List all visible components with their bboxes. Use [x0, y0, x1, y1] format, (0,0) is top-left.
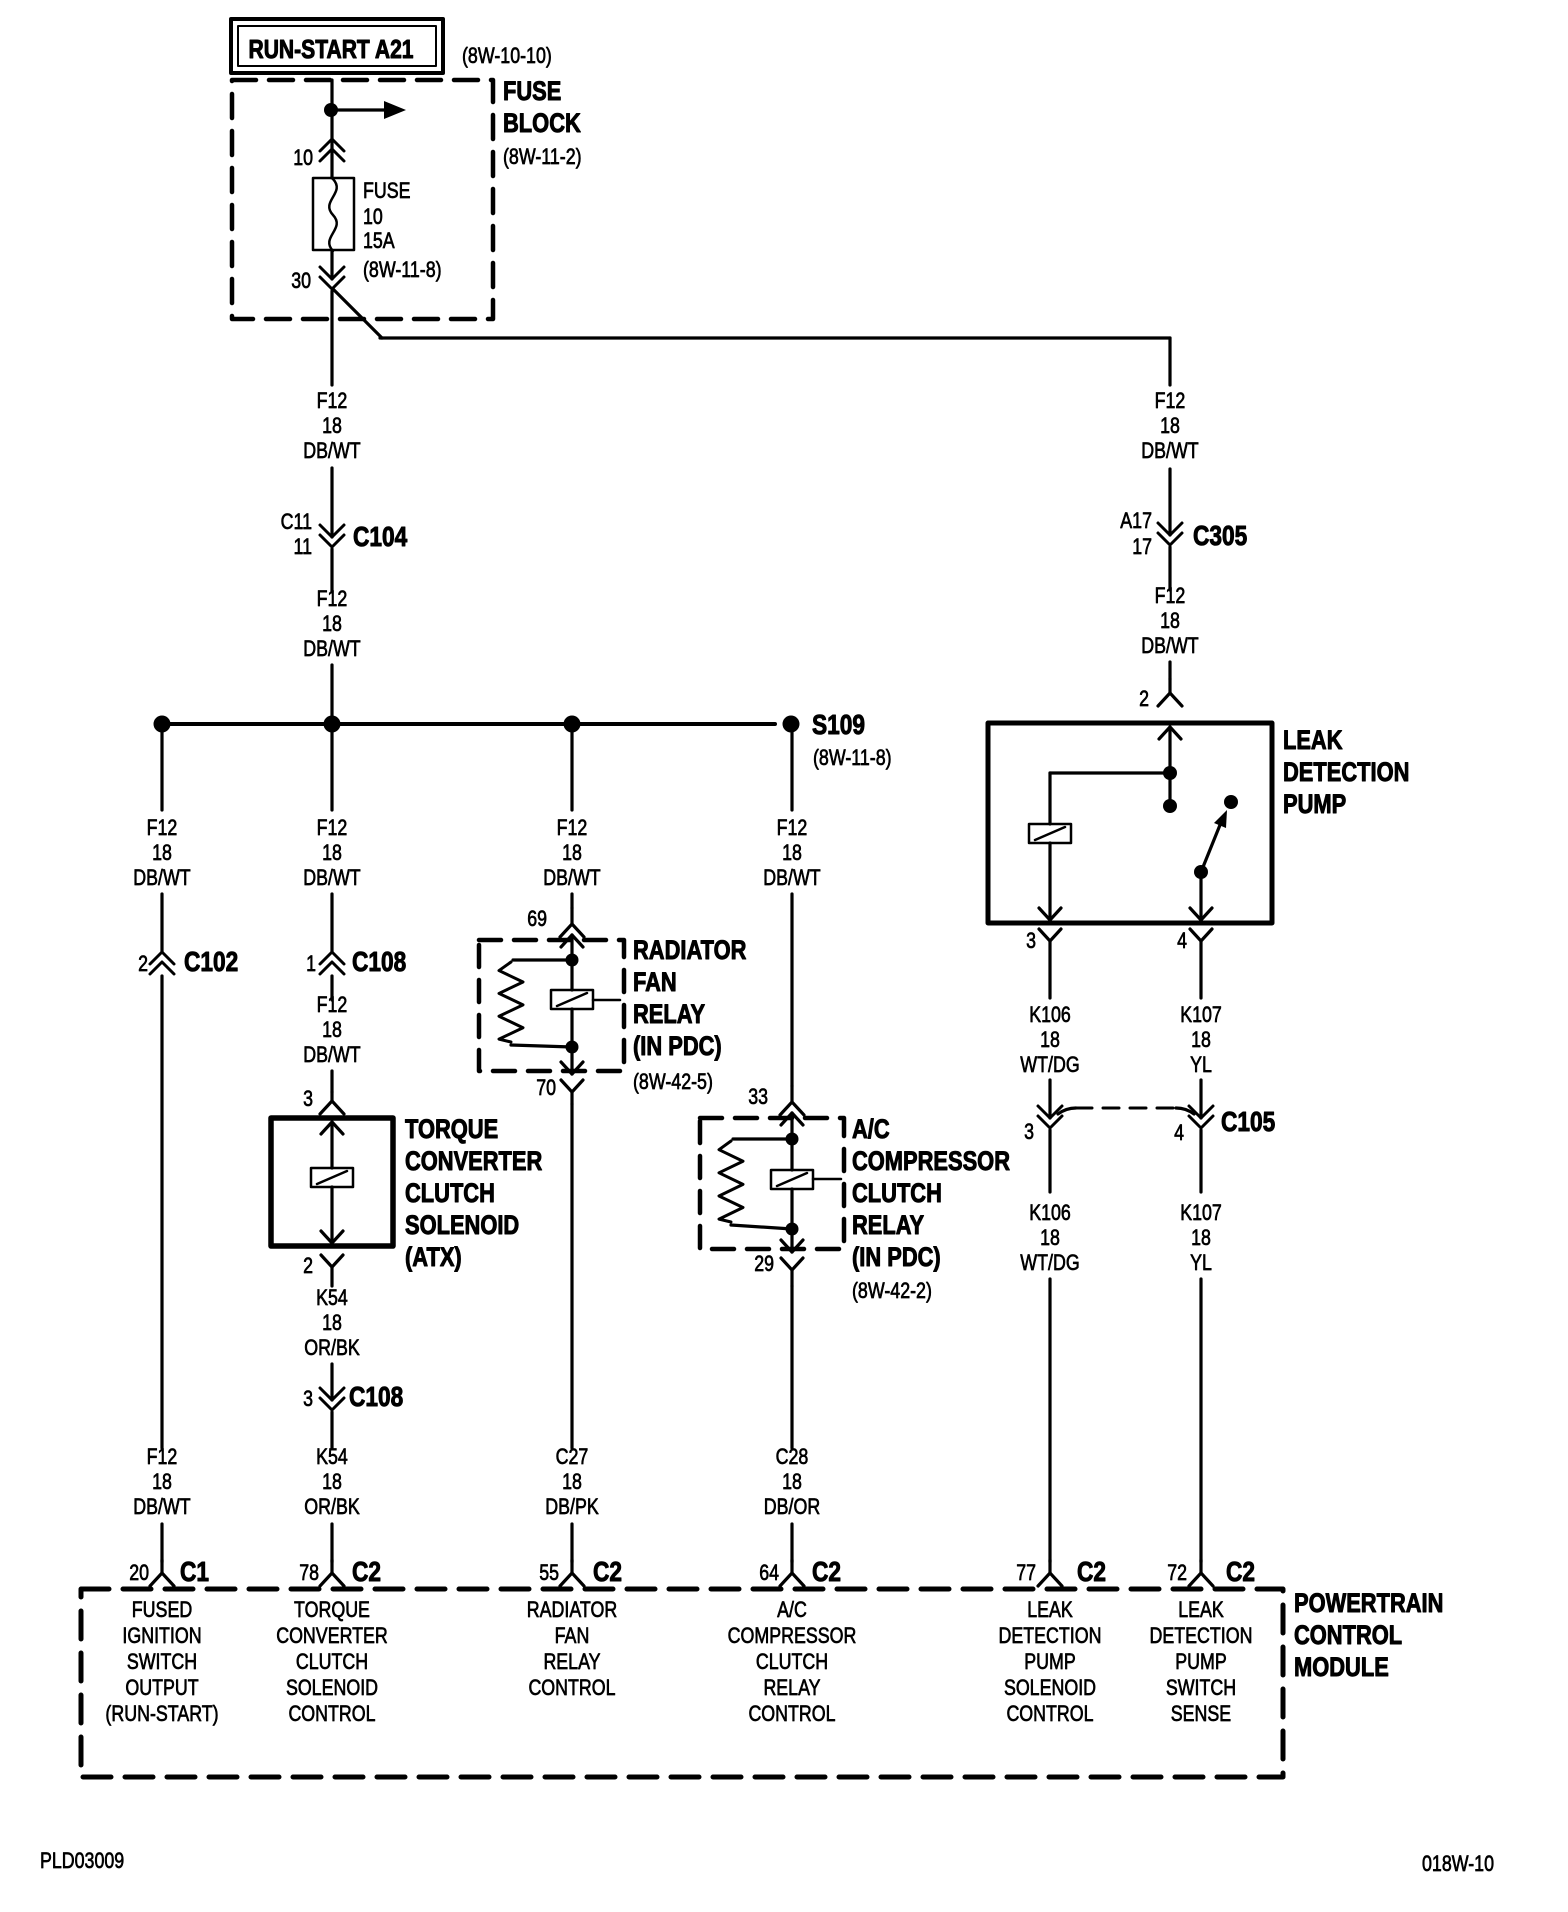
- svg-text:18: 18: [1040, 1225, 1060, 1250]
- svg-text:OR/BK: OR/BK: [304, 1494, 360, 1519]
- svg-text:DETECTION: DETECTION: [1150, 1623, 1253, 1648]
- svg-text:FAN: FAN: [633, 967, 677, 997]
- svg-text:(IN PDC): (IN PDC): [852, 1242, 941, 1272]
- svg-text:C2: C2: [1077, 1556, 1106, 1587]
- svg-text:F12: F12: [777, 815, 808, 840]
- svg-text:C1: C1: [180, 1556, 209, 1587]
- svg-text:F12: F12: [317, 992, 348, 1017]
- svg-text:70: 70: [536, 1075, 556, 1100]
- svg-text:C108: C108: [352, 946, 406, 977]
- svg-text:A17: A17: [1120, 508, 1152, 533]
- svg-text:RELAY: RELAY: [543, 1649, 600, 1674]
- svg-text:78: 78: [299, 1560, 319, 1585]
- svg-text:11: 11: [294, 534, 313, 559]
- svg-text:K107: K107: [1180, 1200, 1222, 1225]
- svg-text:64: 64: [759, 1560, 779, 1585]
- svg-text:DB/WT: DB/WT: [763, 865, 820, 890]
- svg-text:K54: K54: [316, 1285, 348, 1310]
- svg-text:LEAK: LEAK: [1027, 1597, 1073, 1622]
- svg-text:CONVERTER: CONVERTER: [276, 1623, 388, 1648]
- svg-text:DB/WT: DB/WT: [1141, 438, 1198, 463]
- svg-text:CONTROL: CONTROL: [1006, 1701, 1093, 1726]
- svg-text:PUMP: PUMP: [1175, 1649, 1227, 1674]
- svg-text:CONTROL: CONTROL: [1294, 1620, 1402, 1650]
- svg-text:MODULE: MODULE: [1294, 1652, 1389, 1682]
- svg-text:CONTROL: CONTROL: [748, 1701, 835, 1726]
- svg-text:18: 18: [322, 1017, 342, 1042]
- svg-text:PUMP: PUMP: [1024, 1649, 1076, 1674]
- svg-text:2: 2: [138, 951, 148, 976]
- svg-text:RELAY: RELAY: [633, 999, 705, 1029]
- svg-text:DETECTION: DETECTION: [1283, 757, 1409, 787]
- svg-text:C104: C104: [353, 521, 408, 552]
- svg-text:SENSE: SENSE: [1171, 1701, 1231, 1726]
- svg-text:(8W-11-2): (8W-11-2): [503, 144, 582, 169]
- svg-text:K106: K106: [1029, 1002, 1071, 1027]
- svg-text:77: 77: [1016, 1560, 1036, 1585]
- svg-text:F12: F12: [317, 815, 348, 840]
- svg-text:F12: F12: [1155, 583, 1186, 608]
- svg-text:COMPRESSOR: COMPRESSOR: [728, 1623, 857, 1648]
- svg-text:FUSED: FUSED: [132, 1597, 192, 1622]
- svg-text:(IN PDC): (IN PDC): [633, 1031, 722, 1061]
- svg-text:WT/DG: WT/DG: [1020, 1052, 1079, 1077]
- svg-text:1: 1: [306, 951, 316, 976]
- svg-text:PLD03009: PLD03009: [40, 1848, 124, 1873]
- svg-text:DB/WT: DB/WT: [303, 1042, 360, 1067]
- svg-text:DB/WT: DB/WT: [303, 636, 360, 661]
- svg-text:3: 3: [1024, 1119, 1034, 1144]
- svg-text:(8W-11-8): (8W-11-8): [813, 745, 892, 770]
- svg-text:15A: 15A: [363, 228, 395, 253]
- svg-text:BLOCK: BLOCK: [503, 108, 581, 138]
- svg-text:C2: C2: [812, 1556, 841, 1587]
- svg-text:RELAY: RELAY: [763, 1675, 820, 1700]
- svg-text:4: 4: [1177, 928, 1187, 953]
- svg-text:33: 33: [748, 1084, 768, 1109]
- svg-text:72: 72: [1167, 1560, 1187, 1585]
- svg-text:CLUTCH: CLUTCH: [405, 1178, 495, 1208]
- svg-text:F12: F12: [317, 586, 348, 611]
- svg-text:2: 2: [1139, 686, 1149, 711]
- svg-text:18: 18: [562, 1469, 582, 1494]
- svg-text:DB/WT: DB/WT: [303, 438, 360, 463]
- svg-text:TORQUE: TORQUE: [405, 1114, 498, 1144]
- svg-text:F12: F12: [147, 1444, 178, 1469]
- svg-text:POWERTRAIN: POWERTRAIN: [1294, 1588, 1443, 1618]
- svg-text:C28: C28: [776, 1444, 809, 1469]
- svg-text:2: 2: [303, 1253, 313, 1278]
- svg-text:C27: C27: [556, 1444, 589, 1469]
- svg-text:(8W-42-5): (8W-42-5): [633, 1069, 713, 1094]
- svg-text:CONTROL: CONTROL: [528, 1675, 615, 1700]
- svg-text:SOLENOID: SOLENOID: [286, 1675, 378, 1700]
- svg-text:A/C: A/C: [852, 1114, 890, 1144]
- svg-text:LEAK: LEAK: [1178, 1597, 1224, 1622]
- svg-text:DB/WT: DB/WT: [543, 865, 600, 890]
- svg-text:COMPRESSOR: COMPRESSOR: [852, 1146, 1010, 1176]
- svg-text:18: 18: [562, 840, 582, 865]
- svg-text:LEAK: LEAK: [1283, 725, 1343, 755]
- svg-text:18: 18: [152, 840, 172, 865]
- svg-text:17: 17: [1132, 534, 1152, 559]
- svg-text:DB/WT: DB/WT: [133, 1494, 190, 1519]
- svg-text:K106: K106: [1029, 1200, 1071, 1225]
- svg-text:18: 18: [322, 413, 342, 438]
- svg-text:F12: F12: [147, 815, 178, 840]
- svg-text:18: 18: [1160, 608, 1180, 633]
- svg-text:K54: K54: [316, 1444, 348, 1469]
- svg-text:FUSE: FUSE: [503, 76, 561, 106]
- svg-text:CLUTCH: CLUTCH: [756, 1649, 828, 1674]
- svg-text:18: 18: [322, 1310, 342, 1335]
- svg-text:DB/WT: DB/WT: [303, 865, 360, 890]
- svg-text:30: 30: [291, 268, 311, 293]
- svg-text:TORQUE: TORQUE: [294, 1597, 370, 1622]
- svg-text:YL: YL: [1190, 1250, 1212, 1275]
- svg-text:OR/BK: OR/BK: [304, 1335, 360, 1360]
- svg-text:C102: C102: [184, 946, 238, 977]
- svg-text:IGNITION: IGNITION: [122, 1623, 201, 1648]
- svg-text:3: 3: [303, 1086, 313, 1111]
- svg-text:C2: C2: [352, 1556, 381, 1587]
- svg-text:CONTROL: CONTROL: [288, 1701, 375, 1726]
- svg-text:18: 18: [782, 840, 802, 865]
- svg-text:PUMP: PUMP: [1283, 789, 1346, 819]
- svg-text:F12: F12: [317, 388, 348, 413]
- svg-text:(8W-11-8): (8W-11-8): [363, 257, 442, 282]
- svg-text:69: 69: [527, 906, 547, 931]
- svg-text:18: 18: [1191, 1225, 1211, 1250]
- svg-text:(RUN-START): (RUN-START): [105, 1701, 218, 1726]
- svg-text:C108: C108: [349, 1381, 403, 1412]
- svg-text:55: 55: [539, 1560, 559, 1585]
- svg-text:3: 3: [1026, 928, 1036, 953]
- svg-text:FUSE: FUSE: [363, 178, 411, 203]
- svg-text:18: 18: [782, 1469, 802, 1494]
- svg-text:018W-10: 018W-10: [1422, 1851, 1494, 1876]
- svg-text:18: 18: [1191, 1027, 1211, 1052]
- svg-text:F12: F12: [557, 815, 588, 840]
- svg-text:F12: F12: [1155, 388, 1186, 413]
- svg-text:DB/WT: DB/WT: [1141, 633, 1198, 658]
- svg-text:SWITCH: SWITCH: [1166, 1675, 1236, 1700]
- svg-text:(8W-42-2): (8W-42-2): [852, 1278, 932, 1303]
- svg-text:29: 29: [754, 1251, 774, 1276]
- svg-text:4: 4: [1174, 1120, 1184, 1145]
- svg-text:RADIATOR: RADIATOR: [633, 935, 746, 965]
- svg-text:DB/WT: DB/WT: [133, 865, 190, 890]
- svg-text:CLUTCH: CLUTCH: [296, 1649, 368, 1674]
- svg-text:3: 3: [303, 1386, 313, 1411]
- svg-text:WT/DG: WT/DG: [1020, 1250, 1079, 1275]
- svg-text:C2: C2: [593, 1556, 622, 1587]
- svg-text:DB/OR: DB/OR: [764, 1494, 820, 1519]
- svg-text:18: 18: [1040, 1027, 1060, 1052]
- svg-text:RUN-START A21: RUN-START A21: [249, 34, 414, 64]
- svg-text:RELAY: RELAY: [852, 1210, 924, 1240]
- svg-text:C2: C2: [1226, 1556, 1255, 1587]
- svg-text:18: 18: [322, 1469, 342, 1494]
- svg-text:(8W-10-10): (8W-10-10): [462, 43, 552, 68]
- svg-text:FAN: FAN: [555, 1623, 590, 1648]
- svg-text:DB/PK: DB/PK: [545, 1494, 599, 1519]
- svg-text:C105: C105: [1221, 1106, 1275, 1137]
- svg-text:K107: K107: [1180, 1002, 1222, 1027]
- svg-text:YL: YL: [1190, 1052, 1212, 1077]
- svg-text:(ATX): (ATX): [405, 1242, 462, 1272]
- svg-text:CONVERTER: CONVERTER: [405, 1146, 542, 1176]
- svg-text:SWITCH: SWITCH: [127, 1649, 197, 1674]
- svg-text:SOLENOID: SOLENOID: [1004, 1675, 1096, 1700]
- svg-text:10: 10: [363, 204, 383, 229]
- svg-text:18: 18: [1160, 413, 1180, 438]
- svg-text:S109: S109: [812, 709, 865, 740]
- svg-text:20: 20: [129, 1560, 149, 1585]
- svg-text:18: 18: [322, 611, 342, 636]
- svg-text:18: 18: [152, 1469, 172, 1494]
- svg-text:SOLENOID: SOLENOID: [405, 1210, 519, 1240]
- svg-text:CLUTCH: CLUTCH: [852, 1178, 942, 1208]
- svg-text:10: 10: [293, 145, 313, 170]
- svg-text:OUTPUT: OUTPUT: [125, 1675, 198, 1700]
- svg-text:18: 18: [322, 840, 342, 865]
- svg-text:C305: C305: [1193, 520, 1247, 551]
- svg-text:DETECTION: DETECTION: [999, 1623, 1102, 1648]
- svg-text:C11: C11: [281, 509, 312, 534]
- svg-text:A/C: A/C: [777, 1597, 807, 1622]
- svg-text:RADIATOR: RADIATOR: [527, 1597, 617, 1622]
